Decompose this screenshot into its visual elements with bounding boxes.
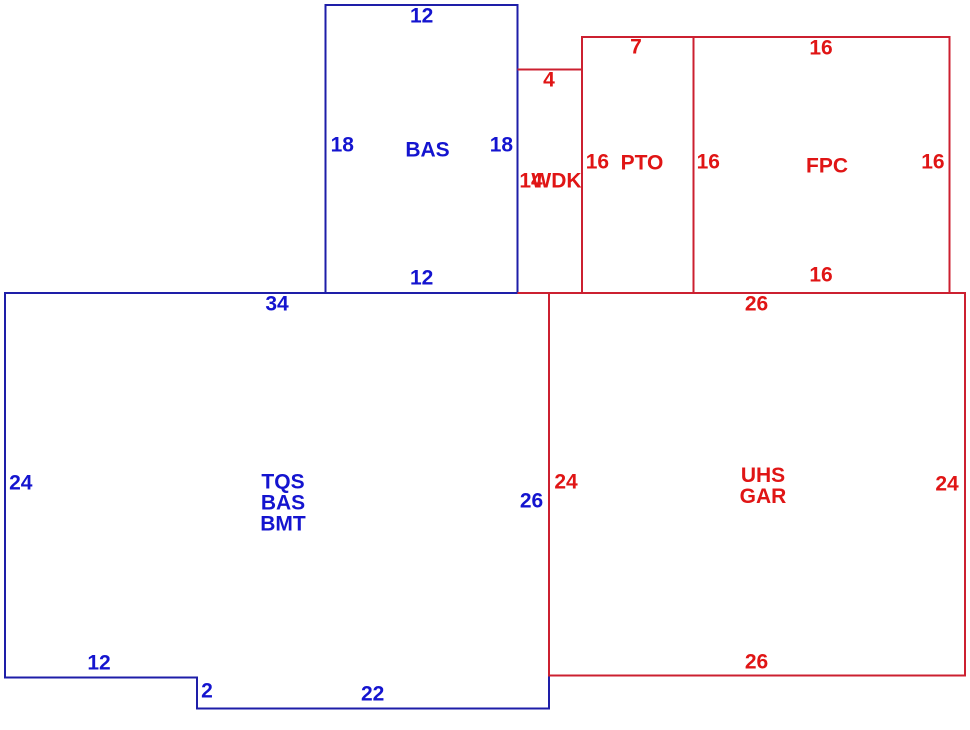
dim 7 top of PTO	[630, 37, 642, 58]
label UHS GAR	[740, 465, 787, 507]
dim 4 top of WDK	[543, 69, 555, 90]
dim 16 left of PTO	[586, 152, 609, 173]
room TQS/BAS/BMT (main living area polygon, blue)	[5, 293, 549, 709]
dim 24 right of GAR	[935, 473, 958, 494]
label FPC	[806, 155, 848, 176]
label PTO	[621, 153, 664, 174]
label WDK	[531, 170, 581, 191]
dim 26 bottom of GAR	[745, 651, 768, 672]
room UHS/GAR (garage, red)	[549, 293, 965, 676]
dim 16 bottom of FPC	[809, 265, 832, 286]
dim 34 top of TQS	[265, 293, 288, 314]
label BAS	[405, 139, 449, 160]
dim 16 right of FPC	[921, 151, 944, 172]
dim 16 top of FPC	[809, 37, 832, 58]
dim 16 left of FPC	[697, 152, 720, 173]
dim 12 top of BAS	[410, 5, 433, 26]
dim 12 bottom-left of TQS	[87, 652, 110, 673]
room BAS (upper living area outline, blue)	[326, 5, 518, 293]
room WDK (wood deck, red, open left side shared with BAS)	[518, 70, 583, 294]
dim 18 left of BAS	[331, 134, 354, 155]
room FPC (porch, red)	[694, 37, 950, 293]
room PTO (patio, red)	[582, 37, 694, 293]
dim 24 left of GAR	[554, 471, 577, 492]
dim 22 bottom of TQS	[361, 683, 384, 704]
label TQS BAS BMT	[260, 471, 306, 534]
dim 2 bottom step of TQS	[201, 681, 213, 702]
dim 14 left of WDK	[519, 170, 542, 191]
dim 24 left of TQS	[9, 472, 32, 493]
dim 18 right of BAS	[490, 134, 513, 155]
dim 12 bottom of BAS	[410, 268, 433, 289]
dim 26 top of GAR	[745, 293, 768, 314]
dim 26 right of TQS	[520, 490, 543, 511]
